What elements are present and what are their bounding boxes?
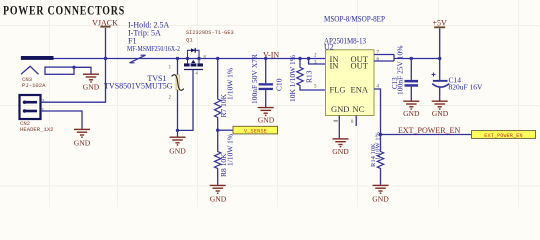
wire pin3 xyxy=(309,59,326,65)
ground jack GND xyxy=(83,74,99,82)
svg-text:PJ-102A: PJ-102A xyxy=(22,82,46,89)
svg-text:100nF 25V 10%: 100nF 25V 10% xyxy=(396,46,405,95)
fuse F1 xyxy=(130,55,146,63)
wire output joint xyxy=(393,55,395,62)
svg-text:820uF 16V: 820uF 16V xyxy=(449,83,484,92)
svg-text:OUT: OUT xyxy=(351,61,369,71)
wire R13 to FLG pin5 xyxy=(300,87,326,90)
resistor R14 xyxy=(377,135,383,185)
wire pin6 xyxy=(374,60,394,62)
svg-text:EXT_POWER_EN: EXT_POWER_EN xyxy=(398,126,460,135)
ground CN2 GND xyxy=(74,129,90,137)
node junction VJACK/CN2 xyxy=(104,57,107,60)
capacitor C14 polarized xyxy=(432,59,450,101)
capacitor C13 xyxy=(405,59,419,101)
svg-text:10K 1/10W 1%: 10K 1/10W 1% xyxy=(288,55,297,102)
connector CN3 barrel jack xyxy=(21,56,74,89)
svg-text:1/10W 1%: 1/10W 1% xyxy=(225,68,234,100)
svg-text:MF-MSMF250/16X-2: MF-MSMF250/16X-2 xyxy=(127,44,180,53)
op-amp U2 regulator body xyxy=(314,50,380,125)
ground U2 GND xyxy=(333,139,349,147)
svg-text:IN: IN xyxy=(330,61,339,71)
wire main rail VJACK to U2 pin2 xyxy=(54,58,326,60)
svg-text:POWER CONNECTORS: POWER CONNECTORS xyxy=(3,4,125,18)
svg-text:+5V: +5V xyxy=(433,19,448,28)
svg-text:GND: GND xyxy=(74,139,91,148)
connector CN2 header xyxy=(20,95,54,133)
svg-text:1/10W 1%: 1/10W 1% xyxy=(375,132,382,160)
svg-text:GND: GND xyxy=(372,195,389,204)
node junction TVS tap xyxy=(176,57,179,60)
wire CN2 pin1 to ground xyxy=(41,111,83,129)
power symbol VJACK xyxy=(92,19,118,28)
node junction ENA/R14 xyxy=(379,133,382,136)
ground R14 GND xyxy=(373,185,389,193)
net flag V_SENSE xyxy=(233,126,278,134)
svg-text:MSOP-8/MSOP-8EP: MSOP-8/MSOP-8EP xyxy=(324,15,385,24)
wire Q1 gate to ground rail xyxy=(178,70,194,131)
wire to V_SENSE flag xyxy=(218,129,233,131)
wire ENA pin4 xyxy=(374,89,381,135)
svg-text:SI2329DS-T1-GE3: SI2329DS-T1-GE3 xyxy=(186,30,234,36)
node junction C13 tap xyxy=(410,57,413,60)
node junction jack sleeve xyxy=(72,66,75,69)
svg-text:100nF 50V X7R: 100nF 50V X7R xyxy=(250,54,259,104)
wire output rail xyxy=(394,58,440,60)
svg-text:GND: GND xyxy=(169,147,186,156)
resistor R13 xyxy=(297,59,303,87)
ground C13 GND xyxy=(403,101,419,109)
wire CN2 pin2 to rail xyxy=(41,59,106,103)
power symbol +5V xyxy=(433,19,448,59)
node junction C14 tap xyxy=(438,57,441,60)
svg-text:GND: GND xyxy=(331,104,349,114)
wire jack sleeve to ground xyxy=(74,67,91,74)
svg-text:ENA: ENA xyxy=(351,85,369,95)
resistor R8 xyxy=(215,130,221,185)
svg-text:GND: GND xyxy=(432,109,449,118)
svg-text:R13: R13 xyxy=(304,70,313,83)
node junction pin3 tap xyxy=(307,57,310,60)
svg-text:U2: U2 xyxy=(324,43,334,52)
svg-text:EXT_POWER_EN: EXT_POWER_EN xyxy=(484,133,522,139)
TVS diode TVS1 xyxy=(169,59,184,131)
wire VJACK drop xyxy=(105,28,107,59)
ground C14 GND xyxy=(432,101,448,109)
svg-text:TVS8501V5MUT5G: TVS8501V5MUT5G xyxy=(104,82,173,91)
ground C10 GND xyxy=(258,108,274,116)
svg-text:NC: NC xyxy=(353,104,365,114)
svg-text:2: 2 xyxy=(42,99,45,105)
node junction R7 tap xyxy=(216,57,219,60)
svg-text:GND: GND xyxy=(210,195,227,204)
wire U2 GND pin1 xyxy=(338,116,340,139)
label F1 text block xyxy=(127,21,180,54)
svg-text:GND: GND xyxy=(258,116,275,125)
svg-text:GND: GND xyxy=(403,109,420,118)
node junction V_SENSE tap xyxy=(216,129,219,132)
svg-text:FLG: FLG xyxy=(330,85,346,95)
node junction TVS/gate ground xyxy=(176,129,179,132)
net flag EXT_POWER_EN xyxy=(472,131,536,139)
pin 8 NC stub xyxy=(355,116,357,127)
resistor R7 xyxy=(215,59,221,131)
node junction C10 tap xyxy=(264,57,267,60)
svg-text:HEADER_1X2: HEADER_1X2 xyxy=(20,126,54,133)
svg-text:C10: C10 xyxy=(274,78,283,91)
svg-text:1/10W 1%: 1/10W 1% xyxy=(225,134,234,166)
wire pin7 xyxy=(374,54,394,56)
svg-text:V_SENSE: V_SENSE xyxy=(244,129,267,135)
wire EXT_POWER_EN xyxy=(381,134,472,136)
ground TVS GND xyxy=(170,137,186,145)
transistor Q1 MOSFET xyxy=(184,48,207,76)
ground R8 GND xyxy=(210,185,226,193)
capacitor C10 xyxy=(259,59,273,108)
node junction R13 tap xyxy=(298,57,301,60)
svg-text:GND: GND xyxy=(83,83,100,92)
svg-text:GND: GND xyxy=(332,147,349,156)
svg-text:1: 1 xyxy=(42,107,45,113)
wire to ground xyxy=(177,130,179,136)
svg-text:V-IN: V-IN xyxy=(263,51,279,60)
svg-text:Q1: Q1 xyxy=(186,37,193,44)
